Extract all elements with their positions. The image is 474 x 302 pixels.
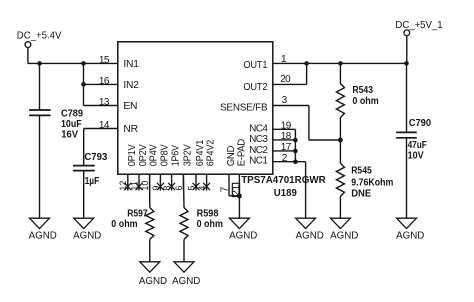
- connector J-out DC_+5V_1: [404, 30, 410, 36]
- svg-text:C789: C789: [61, 109, 83, 120]
- wire NC2: [273, 150, 296, 152]
- wire NC bus vertical: [294, 129, 296, 161]
- label C793 value: [84, 152, 107, 187]
- svg-text:NC3: NC3: [249, 134, 268, 145]
- wire output connector drop: [406, 36, 408, 64]
- junction R543-R545-SENSE: [338, 138, 343, 143]
- svg-text:4: 4: [197, 186, 207, 191]
- svg-text:0P2V: 0P2V: [138, 144, 149, 166]
- svg-text:11: 11: [129, 181, 139, 190]
- svg-text:8: 8: [162, 186, 172, 191]
- svg-text:AGND: AGND: [330, 231, 358, 242]
- wire input rail to IN1: [28, 62, 118, 64]
- capacitor C793: [73, 166, 95, 171]
- wire SENSE to R543 bottom: [309, 139, 341, 141]
- svg-text:DC_+5.4V: DC_+5.4V: [17, 30, 62, 41]
- pin stub 12 no-connect: [124, 174, 131, 190]
- pin stub 9 no-connect: [157, 174, 164, 190]
- wire NC3: [273, 139, 296, 141]
- wire R598 to ground: [183, 239, 185, 261]
- wire OUT1 to R543: [339, 63, 341, 83]
- svg-text:6: 6: [174, 186, 184, 191]
- junction NC1: [293, 160, 298, 165]
- svg-text:SENSE/FB: SENSE/FB: [220, 103, 268, 114]
- svg-text:0 ohm: 0 ohm: [352, 96, 378, 107]
- svg-text:IN1: IN1: [123, 59, 139, 70]
- svg-text:TPS7A4701RGWR: TPS7A4701RGWR: [241, 175, 326, 186]
- wire NR to C793: [83, 129, 85, 166]
- svg-text:12: 12: [118, 181, 128, 191]
- svg-text:AGND: AGND: [172, 276, 200, 287]
- svg-text:AGND: AGND: [396, 231, 424, 242]
- svg-text:GND: GND: [226, 146, 237, 167]
- junction input-EN branch: [81, 61, 86, 66]
- wire GND to E-PAD: [229, 195, 239, 197]
- svg-text:9: 9: [151, 186, 161, 191]
- pin stub GND 7: [228, 174, 230, 196]
- pin number 21 box: [232, 183, 239, 196]
- svg-text:3P2V: 3P2V: [182, 144, 193, 166]
- wire SENSE down: [308, 106, 310, 141]
- wire rail to C789: [39, 63, 41, 110]
- label R598: [197, 209, 223, 230]
- svg-text:DC_+5V_1: DC_+5V_1: [395, 20, 442, 31]
- svg-text:NR: NR: [123, 124, 137, 135]
- svg-text:7: 7: [220, 186, 231, 192]
- svg-text:0 ohm: 0 ohm: [197, 219, 223, 230]
- svg-text:10V: 10V: [408, 151, 424, 162]
- junction NC3: [293, 138, 298, 143]
- resistor R545: [336, 163, 344, 196]
- resistor R598: [180, 208, 188, 240]
- svg-text:5: 5: [186, 186, 196, 191]
- wire OUT2 up: [306, 63, 308, 84]
- svg-text:1P6V: 1P6V: [171, 145, 182, 166]
- junction OUT2 join: [304, 61, 309, 66]
- wire pin10 to R597: [149, 174, 151, 207]
- svg-text:EN: EN: [123, 101, 137, 112]
- label C789 value: [61, 109, 83, 141]
- wire pin6 to R598: [182, 174, 185, 207]
- svg-text:16: 16: [99, 76, 110, 87]
- pin stub 10: [149, 174, 151, 190]
- svg-text:OUT1: OUT1: [243, 60, 267, 71]
- svg-text:6P4V2: 6P4V2: [206, 139, 217, 166]
- ground AGND under R597: [139, 262, 167, 287]
- capacitor C789: [29, 110, 50, 115]
- wire R543 to junction: [339, 118, 341, 140]
- wire C789 to ground: [39, 115, 41, 218]
- label R545: [351, 165, 393, 199]
- ground AGND under NC net: [296, 218, 324, 241]
- wire NR: [84, 128, 118, 130]
- pin stub 4 no-connect: [203, 174, 210, 190]
- wire OUT2: [273, 83, 307, 85]
- pin stub E-PAD 21: [238, 174, 240, 196]
- svg-text:DNE: DNE: [351, 188, 371, 199]
- svg-text:NC1: NC1: [249, 156, 268, 167]
- svg-text:1µF: 1µF: [85, 176, 100, 187]
- svg-text:20: 20: [280, 74, 291, 85]
- ground AGND under C793: [73, 218, 101, 241]
- pin stub 6: [182, 174, 184, 190]
- wire C793 to ground: [83, 171, 85, 219]
- svg-text:OUT2: OUT2: [243, 82, 267, 93]
- wire NC net to ground: [305, 162, 307, 219]
- wire OUT1 rail: [273, 62, 407, 64]
- wire NC4: [273, 128, 296, 130]
- pin stub 5 no-connect: [193, 174, 200, 190]
- junction input-C789: [37, 61, 42, 66]
- op-amp U189 TPS7A4701 body: [118, 42, 273, 174]
- ground AGND under C789: [29, 218, 57, 241]
- wire NC1: [273, 161, 306, 163]
- wire SENSE/FB: [273, 105, 309, 107]
- svg-text:AGND: AGND: [73, 231, 101, 242]
- pin stub 11 no-connect: [136, 174, 143, 190]
- wire IN2: [84, 83, 118, 85]
- wire input connector drop: [27, 48, 29, 64]
- svg-text:0 ohm: 0 ohm: [111, 219, 137, 230]
- svg-text:AGND: AGND: [29, 231, 57, 242]
- svg-text:AGND: AGND: [139, 276, 167, 287]
- wire E-PAD to ground: [238, 196, 240, 218]
- wire junction to R545: [339, 140, 341, 163]
- svg-text:13: 13: [99, 97, 110, 108]
- svg-text:14: 14: [99, 120, 110, 131]
- svg-text:R543: R543: [352, 85, 373, 96]
- wire EN branch vertical: [83, 63, 85, 105]
- junction NC2: [293, 149, 298, 154]
- svg-text:AGND: AGND: [296, 231, 324, 242]
- svg-text:IN2: IN2: [123, 80, 139, 91]
- wire C790 to ground: [406, 138, 408, 218]
- svg-text:47uF: 47uF: [408, 140, 427, 151]
- svg-text:C793: C793: [84, 152, 107, 163]
- svg-text:C790: C790: [409, 118, 432, 129]
- svg-text:0P1V: 0P1V: [127, 144, 138, 166]
- svg-text:9.76Kohm: 9.76Kohm: [351, 178, 393, 189]
- ground AGND under R545: [330, 218, 358, 241]
- svg-text:3: 3: [282, 95, 288, 106]
- svg-text:0P4V: 0P4V: [149, 144, 160, 166]
- svg-text:15: 15: [99, 55, 110, 66]
- svg-text:AGND: AGND: [229, 231, 257, 242]
- label R543: [352, 85, 378, 107]
- svg-text:NC4: NC4: [249, 123, 268, 134]
- svg-text:0P8V: 0P8V: [159, 144, 170, 166]
- junction IN2: [81, 82, 86, 87]
- svg-text:10: 10: [140, 181, 150, 191]
- svg-text:R545: R545: [351, 165, 372, 176]
- ground AGND under E-PAD: [229, 218, 257, 241]
- svg-text:16V: 16V: [61, 129, 78, 140]
- capacitor C790: [396, 132, 417, 137]
- wire EN: [84, 105, 118, 107]
- wire rail to C790: [406, 63, 408, 132]
- junction E-PAD ground: [237, 194, 242, 199]
- wire R545 to ground: [339, 196, 341, 218]
- resistor R597: [146, 208, 154, 240]
- svg-text:6P4V1: 6P4V1: [195, 139, 206, 166]
- svg-text:U189: U189: [274, 188, 297, 199]
- svg-text:E-PAD: E-PAD: [236, 139, 247, 166]
- label C790 value: [408, 118, 432, 162]
- ground AGND under C790: [396, 218, 424, 241]
- junction output connector: [404, 61, 409, 66]
- junction R543 top: [338, 61, 343, 66]
- svg-text:NC2: NC2: [249, 145, 268, 156]
- resistor R543: [336, 83, 344, 117]
- ground AGND under R598: [172, 262, 200, 287]
- wire R597 to ground: [149, 239, 151, 261]
- pin stub 8 no-connect: [168, 174, 175, 190]
- connector J-in DC_+5.4V: [25, 42, 31, 48]
- label R597: [111, 209, 148, 230]
